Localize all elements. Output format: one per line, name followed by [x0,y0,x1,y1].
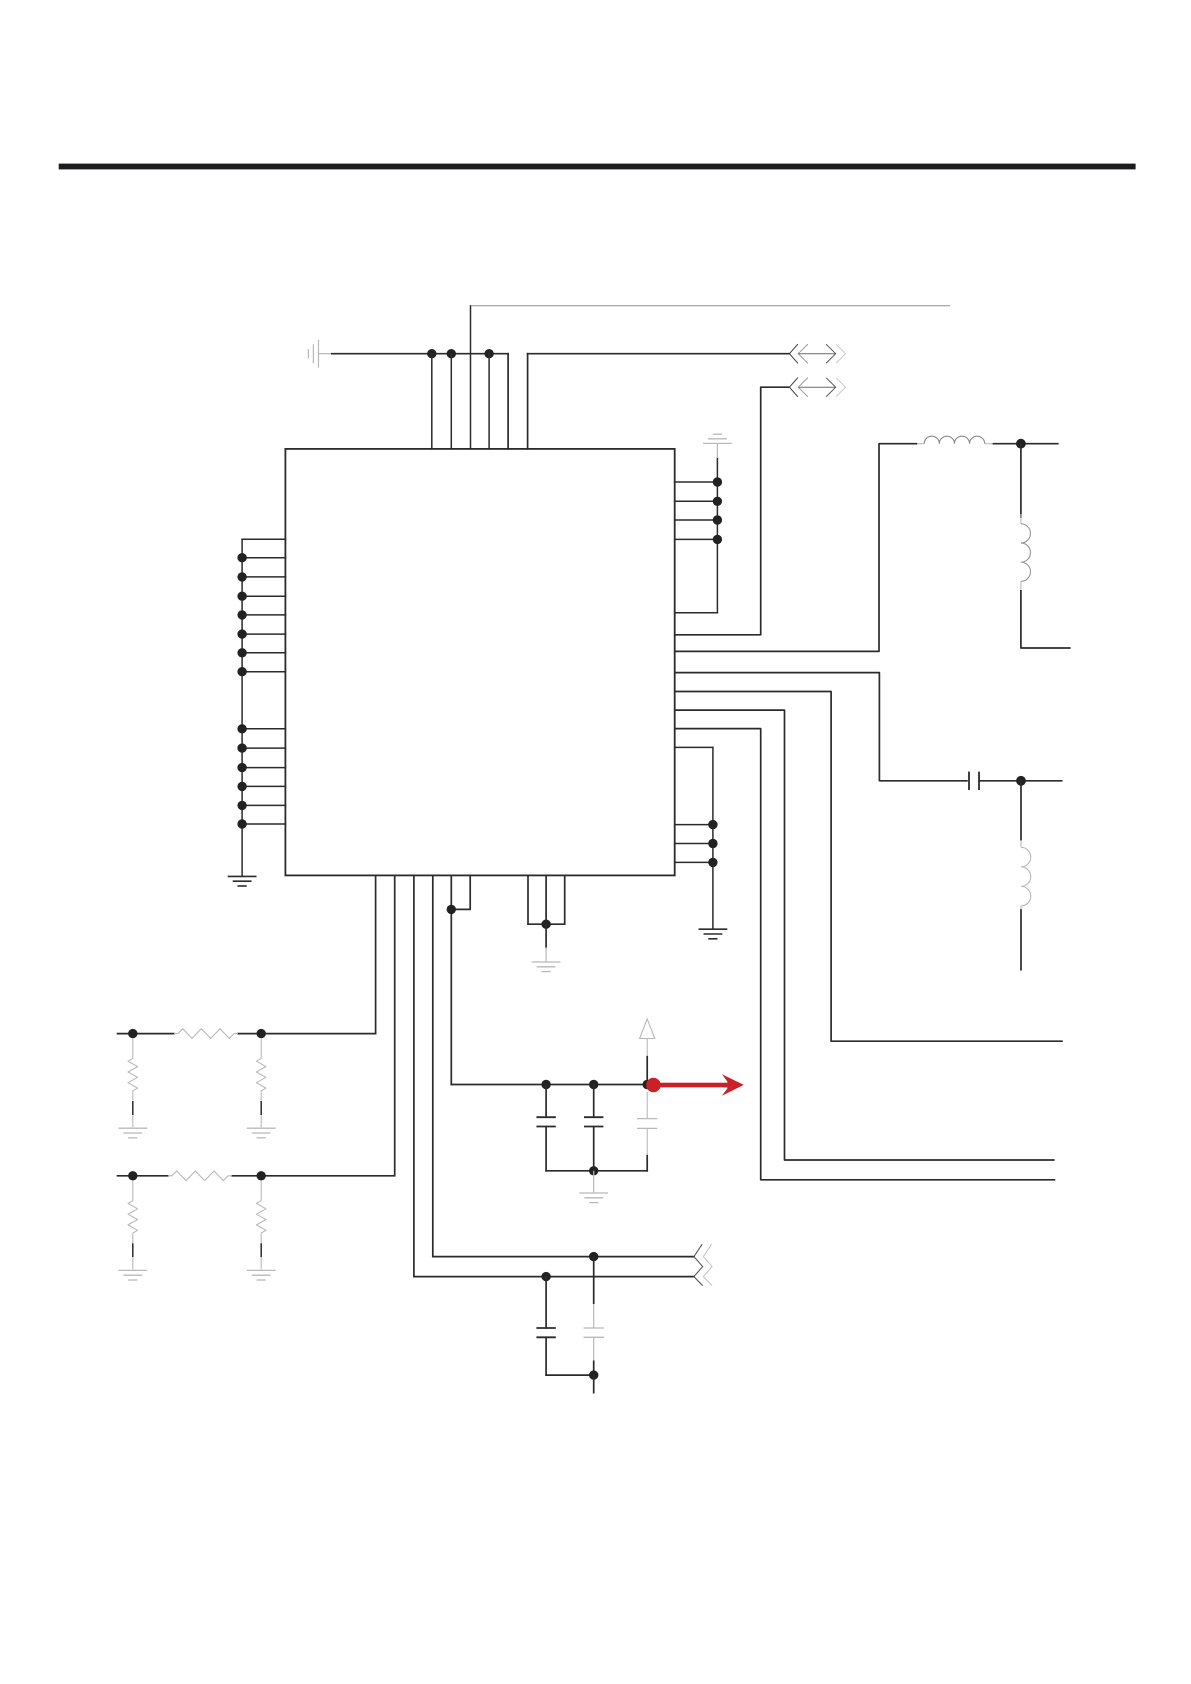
inductor L3 (vertical) [1021,840,1031,913]
node dot top-1 [427,349,436,358]
inductor L1 (horizontal) [917,436,993,444]
node dot left bus 10 [237,763,246,772]
wire RN1 rail [118,1033,376,1035]
wire thin net (top) [471,305,951,307]
wire N2 stub [593,1375,595,1393]
wire node down to L2 [1020,444,1022,517]
wire RN2 rail [118,1175,395,1177]
capacitor C2 [584,1085,603,1171]
wire top VSS rail [332,354,508,449]
test point (red) [646,1074,744,1096]
wire right-lower bus [675,747,713,929]
ground (below IC center) [532,962,561,972]
node dot left bus 8 [237,724,246,733]
ground (under R5) [118,1270,147,1280]
node dot RN1 left [128,1029,137,1038]
node dot top-3 [484,349,493,358]
wire to connector A2 [675,387,790,635]
resistor R4 (horizontal) [168,1171,232,1181]
node dot left bus 3 [237,592,246,601]
wire N1 gnd stub [593,1171,595,1193]
wire right-top bus [675,458,718,613]
IC U1 (main chip body) [285,449,674,876]
node dot N1 gnd [589,1166,598,1175]
node dot N2-a [589,1252,598,1261]
wire W3 to L1 [675,444,918,652]
wire pin riser (crosses rail) [470,306,472,449]
capacitor C4 (horizontal) [969,772,979,790]
node dot left bus 2 [237,572,246,581]
wire C3 bottom [646,1156,648,1171]
wire pin P7 [527,875,529,924]
node dot P8 gnd [541,920,550,929]
wire C4 to node [980,780,1062,782]
node dot right-top bus 4 [713,535,722,544]
node dot left bus 13 [237,819,246,828]
ground (left bus bottom) [228,876,257,886]
capacitor C6 (gray) [584,1257,604,1376]
wire pin P9 [564,875,566,924]
wire W5 [675,692,1063,1042]
resistor R1 (horizontal) [174,1029,238,1039]
ground (chassis, top-left) [308,340,331,368]
inductor L2 (vertical) [1021,514,1031,591]
node dot P5/P6 [447,905,456,914]
resistor R5 (vertical) with lead [128,1181,138,1270]
node dot L1 out [1016,439,1026,449]
node dot left bus 4 [237,610,246,619]
node dot N1-a [541,1080,550,1089]
node dot N2-b [541,1272,550,1281]
wire N2 line A [433,1256,694,1258]
node dot right-lower bus 3 [708,858,717,867]
wire L1 to node [994,443,1058,445]
wire pin P6 joins P5 [451,875,470,909]
off-page connector A2 (bidirectional) [789,378,845,397]
wire pin P3 down [413,875,415,1276]
ground (under R2) [118,1128,147,1138]
wire node down to L3 [1020,781,1022,840]
wire pin P8 [545,875,547,924]
wire pin P4 down [432,875,434,1256]
node dot left bus 1 [237,553,246,562]
wire gnd stem [545,924,547,961]
ground (under R6) [247,1270,276,1280]
capacitor C3 (gray) [637,1092,657,1157]
node dot top-2 [447,349,456,358]
node dot RN2 left [128,1171,137,1180]
node dot left bus 9 [237,743,246,752]
wire W4 to C4 [675,673,968,781]
ground (under R3) [247,1128,276,1138]
supply triangle marker [640,1019,655,1057]
wire W6 [675,710,1055,1160]
wire left ground bus [242,539,285,876]
node dot RN2 right [257,1171,266,1180]
node dot C4 out [1016,776,1026,786]
wire L3 stub [1020,910,1022,970]
wire VCC node rail [451,1084,648,1086]
node dot test point [643,1080,652,1089]
ground (N1) [579,1193,608,1203]
wire pin P5 down [450,875,452,1084]
node dot left bus 11 [237,782,246,791]
off-page connector (double chevron) [694,1244,712,1285]
wire P7-P9 join [528,923,565,925]
wire pin P1 down [375,875,377,1033]
node dot right-top bus 3 [713,515,722,524]
node dot right-lower bus 1 [708,820,717,829]
wire N2 bottom join [546,1374,594,1376]
node dot left bus 6 [237,648,246,657]
node dot right-top bus 1 [713,477,722,486]
wire N2 line B [414,1276,694,1278]
node dot RN1 right [257,1029,266,1038]
ground (right-lower bus) [699,929,728,939]
resistor R2 (vertical) with lead [128,1039,138,1128]
wire W7 [675,729,1056,1180]
wire to connector A1 [528,354,790,449]
node dot right-lower bus 2 [708,839,717,848]
node dot N1-b [589,1080,598,1089]
ground (right-top, inverted) [703,434,732,458]
header rule [59,164,1136,170]
capacitor C5 [536,1277,555,1376]
capacitor C1 [536,1085,555,1171]
node dot left bus 7 [237,667,246,676]
wire pin drop 2 [450,354,452,449]
wire pin P2 down [394,875,396,1175]
wire pin drop 3 [488,354,490,449]
resistor R3 (vertical) with lead [256,1039,266,1128]
wire marker to node [646,1057,648,1085]
off-page connector A1 (bidirectional) [789,344,845,363]
node dot left bus 12 [237,801,246,810]
wire pin drop 1 [431,354,433,449]
node dot left bus 5 [237,629,246,638]
wire L2 to edge [1021,590,1071,648]
wire N1 bottom rail [546,1170,647,1172]
node dot right-top bus 2 [713,497,722,506]
node dot N2 join [589,1370,598,1379]
resistor R6 (vertical) with lead [256,1181,266,1270]
